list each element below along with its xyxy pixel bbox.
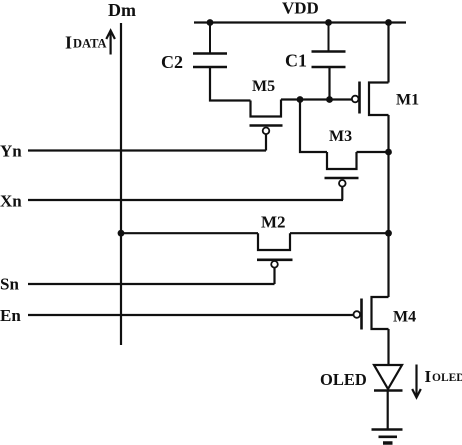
wire M3 drain to rail	[357, 151, 389, 153]
node M3 drain junction	[385, 149, 392, 156]
arrow IDATA	[106, 31, 115, 55]
svg-text:M1: M1	[396, 92, 419, 109]
node M5 drain / M3 source	[297, 96, 304, 103]
svg-text:Sn: Sn	[0, 275, 19, 294]
signal line Xn	[28, 199, 343, 201]
signal line Sn	[28, 283, 275, 285]
svg-text:Yn: Yn	[0, 142, 22, 161]
wire M4 drain to OLED	[387, 329, 389, 365]
transistor M2	[257, 233, 293, 284]
wire rail M2 to M4	[387, 233, 389, 297]
capacitor C2	[193, 23, 227, 68]
svg-text:I: I	[425, 367, 432, 386]
svg-text:I: I	[65, 33, 72, 53]
ground	[372, 430, 403, 444]
wire C2 to M5 source	[210, 67, 251, 101]
current label IOLED	[425, 367, 462, 386]
wire C1 bottom stub	[328, 67, 330, 100]
svg-text:DATA: DATA	[73, 37, 107, 51]
transistor M4	[354, 297, 389, 330]
wire Dm to M2 source	[121, 232, 258, 234]
wire M1 drain to M3	[387, 115, 389, 152]
svg-text:M3: M3	[329, 128, 352, 145]
transistor M3	[325, 152, 359, 200]
svg-text:M5: M5	[252, 78, 275, 95]
node Dm-M2 junction	[118, 230, 125, 237]
node M2 drain junction	[385, 230, 392, 237]
svg-text:M2: M2	[261, 213, 286, 232]
svg-text:C1: C1	[285, 51, 307, 71]
wire right rail M3 to M2	[387, 152, 389, 233]
node C1 bottom junction	[326, 96, 333, 103]
svg-text:Xn: Xn	[0, 192, 22, 211]
transistor M1	[352, 82, 389, 116]
wire OLED to ground	[387, 391, 389, 430]
node VDD-C2 junction	[207, 19, 214, 26]
wire VDD rail	[194, 21, 406, 23]
wire M2 drain to rail	[290, 232, 389, 234]
node VDD-M1 junction	[385, 19, 392, 26]
svg-text:VDD: VDD	[282, 0, 319, 18]
svg-text:En: En	[0, 306, 21, 325]
transistor M5	[250, 100, 283, 151]
arrow IOLED	[412, 365, 421, 398]
capacitor C1	[312, 23, 346, 68]
svg-text:Dm: Dm	[108, 0, 136, 20]
node VDD-C1 junction	[325, 19, 332, 26]
wire gate node to M1 gate	[281, 98, 352, 100]
svg-text:C2: C2	[161, 52, 183, 72]
wire VDD to M1 source	[387, 23, 389, 83]
svg-text:OLED: OLED	[320, 370, 367, 389]
signal line En	[28, 314, 354, 316]
wire data line Dm	[120, 23, 122, 345]
signal line Yn	[28, 149, 266, 151]
diode OLED	[374, 365, 403, 391]
svg-text:M4: M4	[393, 309, 416, 326]
svg-text:OLED: OLED	[432, 372, 462, 384]
current label IDATA	[65, 33, 107, 53]
wire M5 drain down to M3 source	[300, 100, 327, 153]
